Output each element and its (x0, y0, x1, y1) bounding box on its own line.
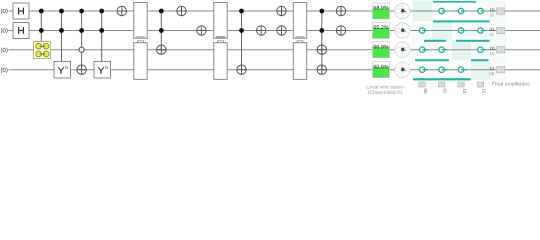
anti control q3 col81 (79, 47, 84, 52)
amp bar row3 bottom a (415, 59, 449, 61)
tall box col301 lower (293, 43, 306, 80)
tall box col301 lower tab (297, 41, 303, 43)
column label c4 (477, 82, 486, 94)
amp circle r1c4 (478, 8, 487, 13)
X target q3 col321 (317, 45, 326, 54)
tall box col221 upper label (216, 36, 225, 37)
control line col161 (160, 11, 162, 50)
panel label column (490, 1, 506, 81)
svg-text:(Chance/Bloch): (Chance/Bloch) (368, 90, 403, 96)
X gate q1 col121 (117, 6, 126, 15)
chance display q2 (373, 23, 390, 39)
svg-text:10: 10 (462, 89, 467, 94)
svg-text:14: 14 (490, 51, 495, 56)
row label r4 (490, 66, 505, 76)
amp circle r4c1 (420, 67, 432, 72)
control dot col241 y30.5 (239, 28, 244, 33)
amp circle r2c1 (420, 28, 432, 33)
control dot col161 y11 (159, 9, 164, 14)
svg-text:60.8%: 60.8% (373, 64, 388, 70)
svg-text:|0⟩: |0⟩ (1, 28, 8, 35)
Y gate q4 col61 (54, 62, 71, 79)
tall box col141 lower (134, 43, 147, 80)
X gate q2 col341 (336, 26, 345, 35)
amp circle r3c1 (420, 47, 432, 52)
amp circle r1c3 (458, 8, 470, 13)
amp cell r4c2 (432, 60, 451, 80)
control dot col101 y11 (99, 9, 104, 14)
wire q2 (9, 30, 540, 32)
X gate q2 col201 (197, 26, 206, 35)
tall box col221 lower (214, 43, 227, 80)
amp cell r1c2 (432, 1, 451, 21)
X gate q1 col181 (177, 6, 186, 15)
control dot col81 y30.5 (79, 28, 84, 33)
row label r2 (490, 27, 505, 37)
bloch display q1 (395, 3, 410, 18)
tall box col301 upper (293, 3, 306, 39)
amp cell r1c4 (471, 1, 490, 21)
amp circle r1c2 (439, 8, 451, 13)
tall box col221 upper (214, 3, 227, 39)
amp bar row1 bottom (433, 20, 490, 22)
control line col81 (81, 11, 83, 70)
amp cell r4c3 (452, 60, 471, 80)
control dot col41 y30.5 (39, 28, 44, 33)
X gate q2 col281 (277, 26, 286, 35)
control line col321 (321, 11, 323, 70)
tall box col301 upper label (295, 36, 304, 37)
svg-text:|0⟩: |0⟩ (1, 47, 8, 54)
H gate q1 (13, 3, 29, 19)
amp cell r4c1 (413, 60, 432, 80)
bloch display q4 (395, 62, 410, 77)
X target q3 col161 (157, 45, 166, 54)
amp cell r1c3 (452, 1, 471, 21)
svg-text:½: ½ (104, 65, 108, 71)
X target q4 col81 (77, 65, 86, 74)
svg-text:Final amplitudes: Final amplitudes (492, 82, 530, 88)
svg-text:½: ½ (64, 65, 68, 71)
amp cell r3c2 (432, 40, 451, 60)
svg-text:|0⟩: |0⟩ (1, 8, 8, 15)
column label c2 (438, 82, 447, 94)
control dot col321 y11 (319, 9, 324, 14)
final amplitude panel (413, 1, 507, 81)
svg-text:65.2%: 65.2% (373, 25, 388, 31)
bloch display q3 (395, 42, 410, 57)
svg-text:68.9%: 68.9% (373, 6, 388, 12)
control dot col101 y30.5 (99, 28, 104, 33)
control line col101 (101, 11, 103, 62)
amp cell r2c3 (452, 21, 471, 41)
svg-text:08: 08 (490, 71, 495, 76)
X gate q1 col341 (336, 6, 345, 15)
tall box col221 lower tab (218, 41, 224, 43)
control dot col81 y11 (79, 9, 84, 14)
svg-text:01: 01 (442, 89, 447, 94)
H gate q2 (13, 23, 29, 39)
X target q4 col321 (317, 65, 326, 74)
amp bar row2 bottom b (456, 40, 490, 42)
svg-text:11: 11 (481, 89, 486, 94)
column label c3 (458, 82, 467, 94)
svg-text:00: 00 (423, 89, 428, 94)
amp cell r3c4 (471, 40, 490, 60)
chance display q3 (373, 42, 390, 58)
amp bar row4 bottom (413, 78, 471, 80)
control dot col161 y30.5 (159, 28, 164, 33)
amp bar row1 top (433, 1, 476, 3)
wire q3 (9, 49, 540, 51)
amp circle r2c3 (458, 28, 470, 33)
amp cell r3c1 (413, 40, 432, 60)
yellow cycle gate q3 (34, 42, 51, 59)
control dot col61 y30.5 (59, 28, 64, 33)
control dot col321 y30.5 (319, 28, 324, 33)
amp circle r2c4 (478, 28, 487, 33)
amp cell r2c1 (413, 21, 432, 41)
control line col41 (40, 11, 42, 42)
bloch display q2 (395, 23, 410, 38)
amp bar row2 bottom a (424, 40, 446, 42)
row label r3 (490, 46, 505, 56)
chance display q4 (373, 62, 390, 78)
amp cell r2c4 (471, 21, 490, 41)
column label c1 (419, 82, 428, 94)
wire q4 (9, 69, 540, 71)
amp circle r4c3 (458, 67, 470, 72)
tall box col141 upper label (136, 36, 145, 37)
X gate q2 col261 (257, 26, 266, 35)
row label r1 (490, 8, 505, 18)
control dot col41 y11 (39, 9, 44, 14)
svg-text:57: 57 (490, 12, 495, 17)
svg-text:|0⟩: |0⟩ (1, 67, 8, 74)
Y gate q4 col101 (94, 62, 111, 79)
svg-text:66.9%: 66.9% (373, 44, 388, 50)
amp bar row3 bottom b (471, 59, 489, 61)
X target q4 col241 (237, 65, 246, 74)
chance display q1 (373, 3, 390, 19)
wire q1 (9, 10, 540, 12)
amp circle r3c4 (478, 47, 487, 52)
control line col241 (241, 11, 243, 70)
tall box col141 upper (134, 3, 147, 39)
tall box col141 lower tab (138, 41, 144, 43)
control dot col61 y11 (59, 9, 64, 14)
amp circle r3c2 (439, 47, 451, 52)
svg-text:21: 21 (490, 32, 495, 37)
control line col61 (61, 11, 63, 62)
amp circle r4c2 (439, 67, 451, 72)
X gate q1 col281 (277, 6, 286, 15)
control dot col241 y11 (239, 9, 244, 14)
